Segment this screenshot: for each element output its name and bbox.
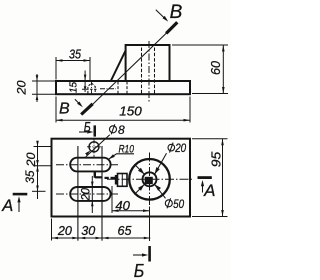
svg-text:В: В — [59, 100, 70, 117]
front view: gusset rib edge — [111, 51, 126, 82]
centerline: bore axis front view — [148, 41, 150, 104]
inner circle Ф20 — [143, 172, 157, 186]
centerline: circle horizontal — [107, 178, 194, 180]
svg-text:35: 35 — [69, 47, 82, 62]
center keyway blob — [145, 177, 153, 184]
dimension 150 — [55, 97, 57, 123]
svg-text:20: 20 — [174, 141, 186, 155]
svg-text:20: 20 — [57, 223, 73, 238]
dimension 95 right — [192, 138, 228, 140]
centerline: Ф8 hole axis front view — [91, 82, 93, 95]
boss square — [118, 174, 128, 187]
view B arrow top — [156, 10, 166, 20]
dimension 35 — [55, 57, 57, 80]
svg-text:60: 60 — [209, 61, 223, 75]
svg-text:Б: Б — [84, 119, 91, 134]
hidden line: bore Ф20 right edge — [154, 48, 156, 95]
section Б marker top — [94, 125, 97, 136]
svg-text:А: А — [203, 181, 215, 200]
big circle Ф50 — [129, 159, 170, 200]
dimension 20 base height — [32, 80, 55, 82]
svg-text:35: 35 — [23, 170, 37, 183]
hole Ф8 top view — [89, 142, 99, 152]
label Ф20 with leader — [168, 144, 175, 151]
bottom slot — [70, 187, 110, 201]
hidden line: boss recess left edge — [117, 82, 119, 95]
svg-text:20: 20 — [80, 187, 92, 201]
hidden line: boss recess right edge — [126, 82, 128, 95]
extension line through slots left — [77, 146, 79, 241]
hidden line: counterbore bottom — [82, 88, 97, 90]
section bend mark 2 — [105, 177, 109, 179]
svg-text:15: 15 — [67, 82, 79, 93]
svg-text:40: 40 — [115, 199, 130, 213]
svg-text:150: 150 — [119, 104, 142, 119]
svg-text:8: 8 — [118, 123, 125, 137]
dimension 15 countersink depth — [84, 71, 86, 93]
svg-text:20: 20 — [24, 152, 38, 167]
svg-text:В: В — [170, 2, 183, 23]
svg-text:Б: Б — [134, 261, 145, 280]
Ф20 opposite arrow — [135, 184, 144, 193]
svg-text:95: 95 — [210, 152, 224, 168]
svg-text:А: А — [1, 197, 13, 215]
centerline: top slot — [56, 164, 118, 166]
dimension chain 20 35 left — [34, 146, 53, 148]
view B arrow bottom — [75, 99, 81, 105]
view B stroke bottom — [81, 104, 93, 115]
centerline: horizontal in base — [100, 88, 116, 90]
front view: base plate outline — [56, 81, 190, 94]
section bend mark 1 — [94, 172, 96, 178]
svg-text:30: 30 — [81, 223, 96, 238]
label Ф50 with leader — [165, 200, 172, 207]
dimension 20 slot width — [91, 176, 93, 213]
svg-text:50: 50 — [173, 197, 184, 211]
Ф50 opposite arrow — [135, 165, 144, 174]
hidden line: bore Ф20 left edge — [141, 48, 143, 95]
section Б marker bottom — [148, 246, 151, 262]
top slot — [70, 158, 110, 172]
extension line: circle center down — [149, 207, 151, 242]
centerline: circle vertical — [149, 153, 151, 207]
svg-text:20: 20 — [14, 80, 28, 95]
dimension 60 — [172, 44, 228, 46]
centerline: bottom slot — [56, 193, 118, 195]
top view: plate outline — [52, 139, 191, 217]
centerline: Ф8 crosshair horizontal — [87, 146, 103, 148]
section A marker right — [198, 176, 212, 179]
front view: column outline — [126, 45, 170, 81]
section A marker left — [13, 193, 28, 196]
view B stroke top — [166, 22, 177, 33]
hidden line: countersunk hole Ф8 profile — [88, 83, 95, 94]
centerline: Ф8 crosshair vertical — [93, 140, 95, 158]
extension line through slots right — [101, 146, 103, 241]
dimension 40 — [111, 186, 113, 213]
svg-text:65: 65 — [118, 223, 133, 238]
dimension chain 20 30 65 bottom — [51, 219, 53, 241]
view B direction line — [93, 33, 167, 104]
label Ф8 with leader — [110, 126, 117, 133]
